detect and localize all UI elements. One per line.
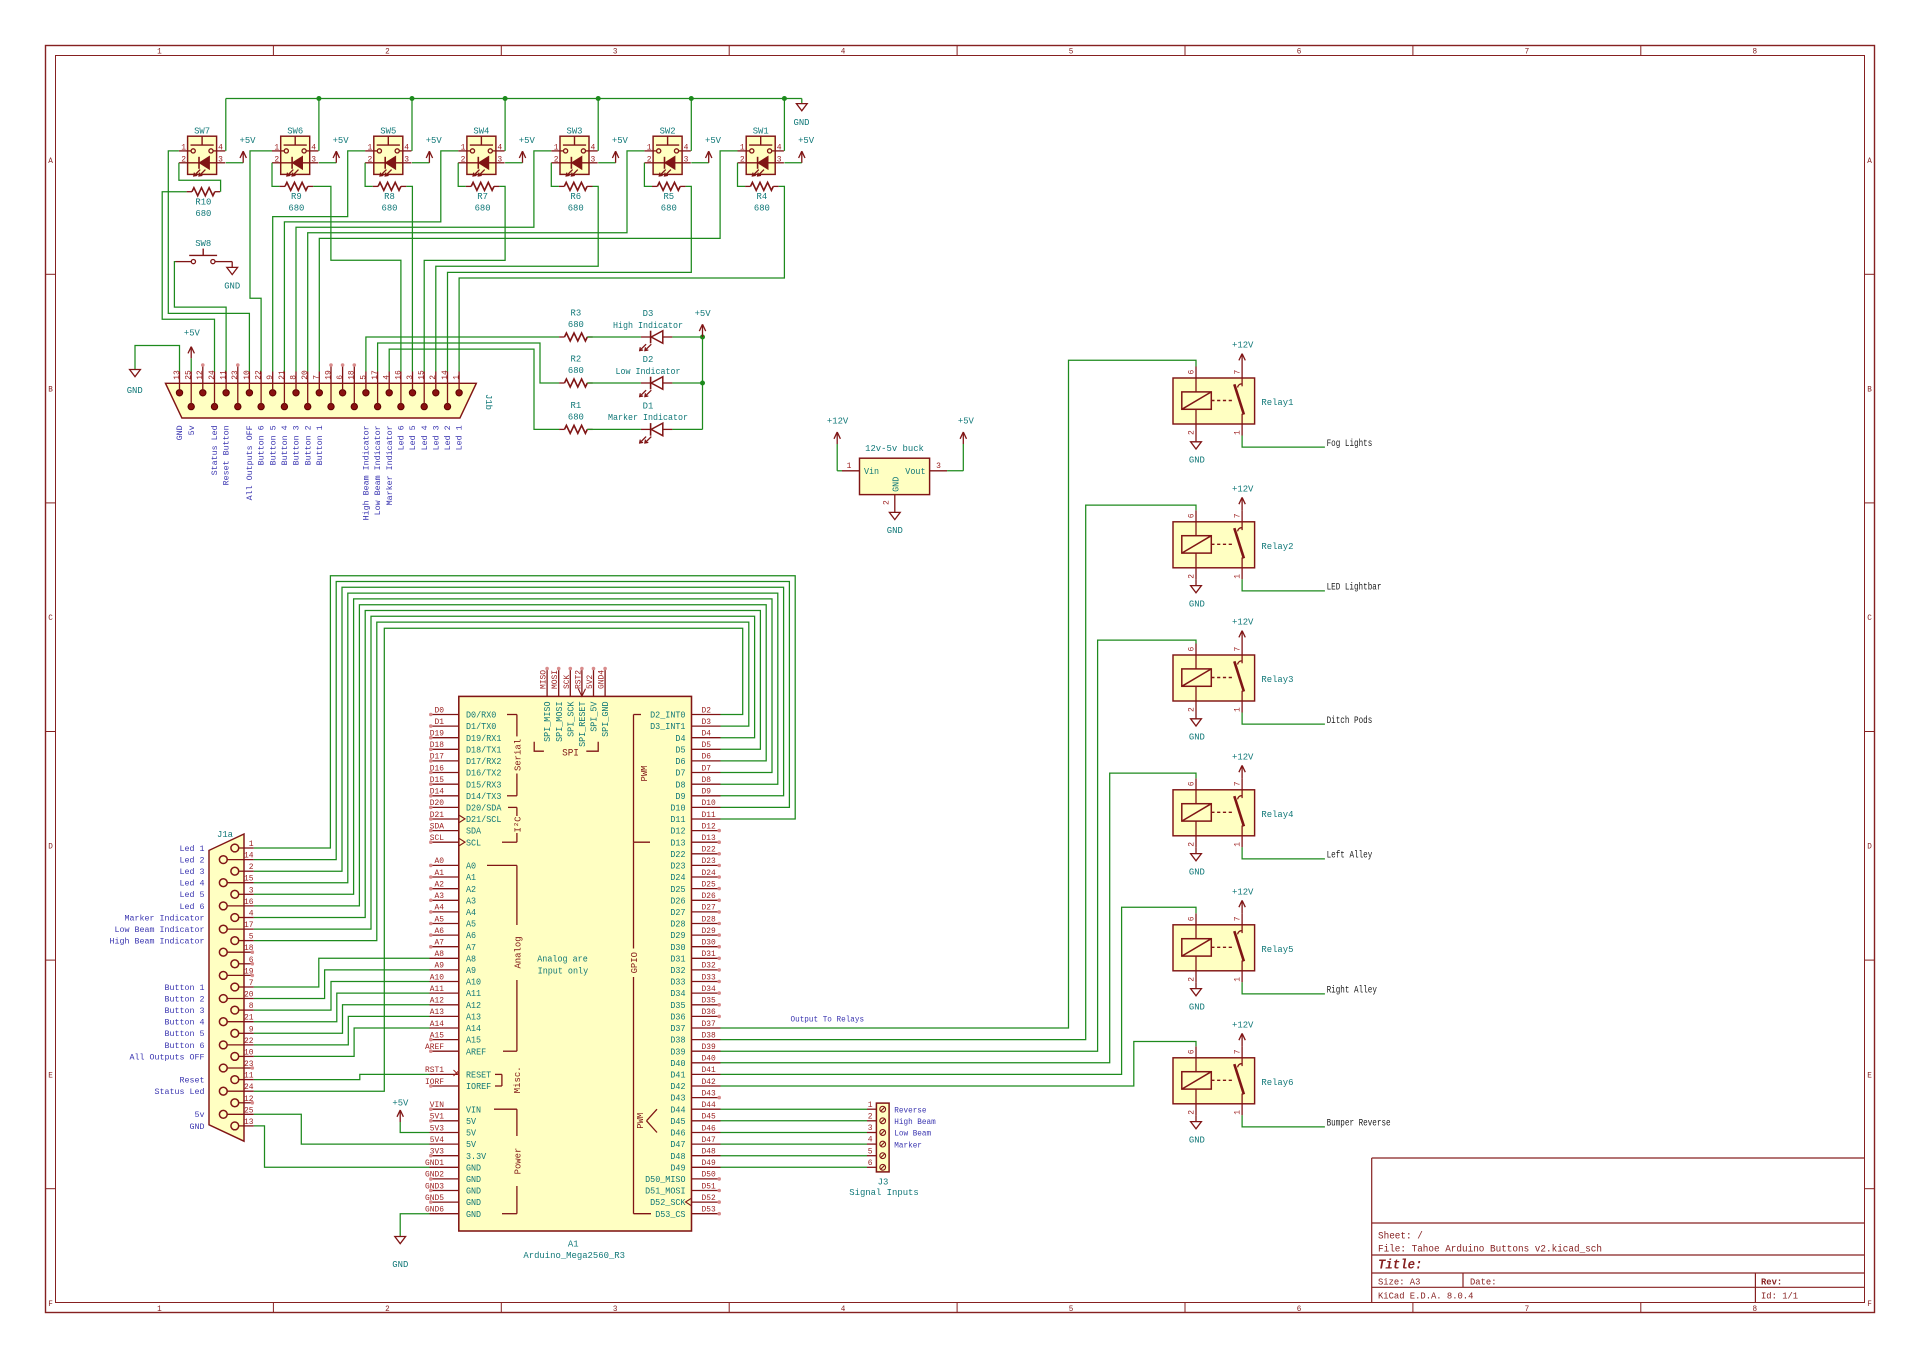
svg-text:1: 1 (453, 375, 462, 380)
svg-text:D15/RX3: D15/RX3 (466, 780, 501, 790)
svg-text:A8: A8 (435, 950, 445, 959)
wire Low Indicator: J1b pin17 to R2/D2 (378, 343, 703, 383)
svg-text:4: 4 (383, 375, 392, 380)
+5V power symbol at SW6 (319, 135, 349, 163)
svg-text:22: 22 (244, 1037, 254, 1046)
svg-text:E: E (1867, 1070, 1872, 1080)
svg-text:D11: D11 (670, 815, 685, 825)
svg-text:Led 6: Led 6 (180, 902, 205, 912)
svg-text:+5V: +5V (695, 308, 711, 319)
wire High Indicator: J1b pin5 to R3/D3 (366, 337, 703, 372)
svg-text:D11: D11 (702, 811, 716, 820)
net label Reverse at J3 (894, 1105, 926, 1115)
net label GND at J1a pin 13 (190, 1122, 205, 1132)
GND symbol at Relay6 (1189, 1115, 1205, 1145)
svg-text:SW6: SW6 (287, 126, 303, 137)
connector J1a (209, 829, 254, 1141)
wire Led 5: R8 to J1b pin 3 (406, 186, 412, 371)
svg-text:2: 2 (249, 863, 254, 872)
svg-text:+12V: +12V (1232, 752, 1254, 763)
+12V power symbol at Relay4 (1232, 752, 1254, 779)
svg-text:A9: A9 (466, 966, 476, 976)
svg-text:D47: D47 (702, 1136, 716, 1145)
svg-text:GND: GND (887, 525, 903, 536)
svg-text:680: 680 (754, 203, 770, 214)
svg-text:680: 680 (568, 365, 584, 376)
wire Led 1: J1a pin 1 to Arduino (254, 576, 795, 848)
switch SW4 (458, 126, 504, 176)
resistor R3 (559, 308, 593, 341)
svg-text:1: 1 (368, 142, 373, 152)
net label Led 2 at J1b pin 14 (443, 425, 453, 450)
svg-text:GND: GND (466, 1175, 481, 1185)
svg-text:14: 14 (244, 852, 254, 861)
net label Button 6 at J1a pin 22 (165, 1041, 205, 1051)
svg-text:15: 15 (418, 370, 427, 380)
switch SW3 (551, 126, 597, 176)
+5V power symbol at J1b pin 25 (184, 328, 200, 372)
svg-text:8: 8 (289, 375, 298, 380)
svg-text:6: 6 (1188, 647, 1197, 652)
svg-text:D21/SCL: D21/SCL (466, 815, 501, 825)
svg-text:2: 2 (1188, 430, 1197, 435)
wire D42 to Relay6 coil (721, 1042, 1197, 1087)
svg-text:D28: D28 (702, 915, 716, 924)
svg-text:Led 3: Led 3 (431, 425, 441, 450)
svg-text:D23: D23 (670, 862, 685, 872)
svg-text:Button 5: Button 5 (165, 1029, 205, 1039)
svg-text:6: 6 (1188, 370, 1197, 375)
net label Led 2 at J1a pin 14 (180, 856, 205, 866)
svg-text:Button 4: Button 4 (280, 425, 290, 465)
svg-text:A: A (48, 156, 53, 166)
+5V power symbol at SW1 (784, 135, 814, 163)
svg-text:GND: GND (466, 1210, 481, 1220)
svg-text:680: 680 (568, 203, 584, 214)
net label Ditch Pods (1327, 715, 1373, 727)
svg-text:GND: GND (1189, 599, 1205, 610)
svg-text:2: 2 (1188, 707, 1197, 712)
svg-text:5v: 5v (195, 1110, 205, 1120)
svg-text:PWM: PWM (635, 1113, 646, 1129)
svg-text:A11: A11 (466, 989, 481, 999)
net label Output To Relays (791, 1015, 865, 1025)
svg-text:A2: A2 (466, 885, 476, 895)
svg-text:3: 3 (218, 154, 223, 164)
svg-text:10: 10 (244, 1048, 254, 1057)
svg-text:D4: D4 (702, 730, 712, 739)
net label Button 1 at J1b pin 7 (315, 425, 325, 465)
net label Left Alley (1327, 850, 1373, 862)
svg-text:6: 6 (1188, 916, 1197, 921)
wire Reset Button: SW8 to J1b pin 11 (174, 262, 226, 372)
+12V power symbol at Relay6 (1232, 1020, 1254, 1047)
resistor R4 (745, 182, 779, 213)
net label Led 3 at J1b pin 2 (431, 425, 441, 450)
wire Button 3: J1a pin 8 to Arduino (254, 982, 430, 1011)
svg-text:D5: D5 (675, 745, 685, 755)
wire Fog Lights output from Relay1 pin 1 (1242, 436, 1325, 448)
svg-text:2: 2 (429, 375, 438, 380)
svg-text:+12V: +12V (1232, 887, 1254, 898)
svg-text:2: 2 (461, 154, 466, 164)
svg-text:6: 6 (1297, 1304, 1302, 1314)
svg-text:2: 2 (883, 500, 892, 505)
wire High Beam Indicator: J1a pin 5 to Arduino (254, 622, 749, 941)
+5V power symbol at Arduino 5V3 (392, 1098, 429, 1133)
svg-text:1: 1 (1234, 842, 1243, 847)
resistor R2 (559, 354, 593, 387)
+5V power symbol at SW4 (505, 135, 535, 163)
svg-text:D46: D46 (670, 1129, 685, 1139)
net label Status Led at J1b pin 24 (210, 425, 220, 475)
svg-text:Button 6: Button 6 (165, 1041, 205, 1051)
svg-text:Led 3: Led 3 (180, 867, 205, 877)
resistor R9 (280, 182, 314, 213)
svg-text:22: 22 (255, 370, 264, 380)
svg-text:20: 20 (301, 370, 310, 380)
svg-text:10: 10 (243, 370, 252, 380)
svg-text:2: 2 (274, 154, 279, 164)
svg-text:GND: GND (1189, 1002, 1205, 1013)
svg-text:A1: A1 (435, 869, 445, 878)
svg-text:5V: 5V (466, 1129, 477, 1139)
svg-text:D27: D27 (670, 908, 685, 918)
svg-text:A12: A12 (430, 997, 444, 1006)
svg-text:High Beam: High Beam (894, 1117, 935, 1127)
GND symbol at Relay1 (1189, 436, 1205, 466)
net label Marker Indicator at J1b pin 4 (385, 425, 395, 505)
svg-text:D42: D42 (702, 1078, 716, 1087)
svg-text:D44: D44 (702, 1101, 716, 1110)
svg-text:16: 16 (244, 898, 254, 907)
svg-text:Ditch Pods: Ditch Pods (1327, 715, 1373, 727)
svg-text:KiCad E.D.A. 8.0.4: KiCad E.D.A. 8.0.4 (1378, 1290, 1474, 1301)
svg-text:C: C (1867, 613, 1872, 623)
svg-text:D36: D36 (702, 1008, 716, 1017)
wire SW5 pin2 to R8 (365, 163, 373, 187)
svg-text:19: 19 (324, 370, 333, 380)
LED D3 High Indicator (613, 308, 683, 351)
GND symbol at Relay2 (1189, 579, 1205, 609)
wire SW7 pin2 to R10 right lead (179, 163, 221, 192)
svg-text:Date:: Date: (1470, 1276, 1497, 1287)
svg-text:A8: A8 (466, 954, 476, 964)
svg-text:+5V: +5V (612, 135, 628, 146)
svg-text:D39: D39 (702, 1043, 716, 1052)
svg-text:GND: GND (190, 1122, 205, 1132)
svg-text:8: 8 (1753, 1304, 1758, 1314)
svg-text:Signal Inputs: Signal Inputs (849, 1187, 919, 1198)
svg-text:A1: A1 (568, 1238, 579, 1249)
svg-text:25: 25 (185, 370, 194, 380)
svg-text:A4: A4 (435, 904, 445, 913)
net label Button 2 at J1b pin 20 (303, 425, 313, 465)
wire SW1 pin4 to +5V bus (782, 96, 787, 151)
svg-text:D2_INT0: D2_INT0 (650, 711, 685, 721)
svg-text:Button 6: Button 6 (257, 425, 267, 465)
svg-text:6: 6 (1297, 47, 1302, 57)
+5V power symbol at buck Vout (947, 416, 974, 471)
svg-text:B: B (1867, 385, 1872, 395)
+5V power symbol at SW2 (691, 135, 721, 163)
svg-text:D36: D36 (670, 1013, 685, 1023)
svg-text:D41: D41 (670, 1071, 685, 1081)
svg-text:IORF: IORF (425, 1078, 444, 1087)
net label Led 5 at J1a pin 3 (180, 890, 205, 900)
svg-text:SW4: SW4 (473, 126, 489, 137)
svg-text:R10: R10 (195, 197, 211, 208)
svg-text:680: 680 (382, 203, 398, 214)
svg-text:GND4: GND4 (598, 670, 607, 689)
svg-text:R9: R9 (291, 191, 302, 202)
svg-text:GND2: GND2 (425, 1171, 444, 1180)
svg-text:D52_SCK: D52_SCK (650, 1198, 686, 1208)
svg-text:1: 1 (554, 142, 559, 152)
svg-text:R3: R3 (571, 308, 582, 319)
svg-text:GND3: GND3 (425, 1182, 444, 1191)
svg-text:D12: D12 (702, 822, 716, 831)
net label High Beam at J3 (894, 1117, 935, 1127)
svg-text:D51_MOSI: D51_MOSI (645, 1187, 685, 1197)
svg-text:+5V: +5V (184, 328, 200, 339)
svg-text:D18/TX1: D18/TX1 (466, 745, 501, 755)
svg-text:D: D (48, 842, 53, 852)
net label Led 3 at J1a pin 2 (180, 867, 205, 877)
wire Led 6: R9 to J1b pin 16 (313, 186, 401, 371)
svg-text:2: 2 (1188, 574, 1197, 579)
svg-text:+5V: +5V (426, 135, 442, 146)
svg-text:D3_INT1: D3_INT1 (650, 722, 685, 732)
connector J1b (166, 363, 495, 418)
svg-text:4: 4 (497, 142, 502, 152)
svg-text:D26: D26 (702, 892, 716, 901)
wire SW4 pin4 to +5V bus (503, 96, 508, 151)
svg-text:D42: D42 (670, 1082, 685, 1092)
svg-text:7: 7 (1234, 370, 1243, 375)
svg-text:SPI_SCK: SPI_SCK (566, 701, 576, 737)
wire GND: J1a pin 13 to Arduino GND1 (254, 1126, 430, 1167)
svg-text:4: 4 (591, 142, 596, 152)
svg-text:Serial: Serial (512, 739, 523, 771)
relay Relay2 (1173, 510, 1294, 579)
svg-text:1: 1 (647, 142, 652, 152)
svg-text:MOSI: MOSI (551, 670, 560, 689)
svg-text:Marker Indicator: Marker Indicator (385, 425, 395, 505)
wire SW2 pin2 to R5 (644, 163, 652, 187)
wire Led 5: J1a pin 3 to Arduino (254, 599, 772, 894)
svg-text:24: 24 (208, 370, 217, 380)
svg-text:11: 11 (244, 1072, 254, 1081)
svg-text:+12V: +12V (1232, 484, 1254, 495)
wire SW6 pin2 to R9 (272, 163, 280, 187)
svg-text:17: 17 (244, 921, 254, 930)
net label Led 5 at J1b pin 3 (408, 425, 418, 450)
svg-text:F: F (48, 1299, 53, 1309)
svg-text:17: 17 (371, 370, 380, 380)
svg-text:A1: A1 (466, 873, 476, 883)
svg-text:D39: D39 (670, 1047, 685, 1057)
svg-text:7: 7 (1525, 47, 1530, 57)
wire All Outputs OFF: SW7 pin1 to J1b pin 10 (168, 151, 249, 372)
wire SW1 pin2 to R4 (738, 163, 746, 187)
title block (1372, 1158, 1865, 1303)
svg-text:D22: D22 (702, 846, 716, 855)
wire All Outputs OFF: J1a pin 10 to Arduino (254, 1028, 430, 1056)
svg-text:680: 680 (288, 203, 304, 214)
svg-text:GND: GND (466, 1163, 481, 1173)
buck converter module 12v-5v buck (842, 443, 947, 512)
svg-text:IOREF: IOREF (466, 1082, 491, 1092)
svg-text:R1: R1 (571, 400, 582, 411)
svg-text:2: 2 (1188, 842, 1197, 847)
svg-text:D: D (1867, 842, 1872, 852)
resistor R6 (559, 182, 593, 213)
svg-text:A10: A10 (430, 973, 444, 982)
net label Led 4 at J1a pin 15 (180, 879, 205, 889)
svg-text:D1/TX0: D1/TX0 (466, 722, 496, 732)
svg-text:25: 25 (244, 1106, 254, 1115)
wire D49 to J3 pin 6 (721, 1166, 868, 1168)
svg-text:Button 3: Button 3 (165, 1006, 205, 1016)
svg-text:D51: D51 (702, 1182, 716, 1191)
svg-text:D23: D23 (702, 857, 716, 866)
resistor R5 (652, 182, 686, 213)
svg-text:+5V: +5V (798, 135, 814, 146)
svg-text:D32: D32 (702, 962, 716, 971)
svg-text:D2: D2 (702, 706, 712, 715)
svg-text:D47: D47 (670, 1140, 685, 1150)
wire Led 2: J1a pin 14 to Arduino (254, 582, 790, 860)
svg-text:D25: D25 (670, 885, 685, 895)
svg-text:RST2: RST2 (574, 670, 583, 689)
svg-text:5: 5 (1069, 47, 1074, 57)
svg-text:GPIO: GPIO (629, 952, 640, 974)
svg-text:Reverse: Reverse (894, 1105, 926, 1115)
svg-text:D9: D9 (675, 792, 685, 802)
svg-text:6: 6 (336, 375, 345, 380)
svg-text:A5: A5 (466, 920, 476, 930)
wire D47 to J3 pin 4 (721, 1143, 868, 1145)
svg-text:SCK: SCK (563, 675, 572, 689)
GND symbol at J1b pin 13 (127, 346, 180, 396)
svg-text:D7: D7 (675, 769, 685, 779)
wire D37 to Relay1 coil (721, 360, 1197, 1028)
svg-text:+12V: +12V (1232, 340, 1254, 351)
svg-text:A7: A7 (435, 939, 445, 948)
wire Led 2: R5 to J1b (448, 186, 692, 371)
wire D44 to J3 pin 1 (721, 1108, 868, 1110)
svg-text:13: 13 (244, 1118, 254, 1127)
GND symbol at top right of switch bus (794, 99, 810, 129)
svg-text:1: 1 (868, 1101, 873, 1110)
Arduino Mega2560 A1 (425, 667, 721, 1261)
wire D39 to Relay3 coil (721, 640, 1197, 1051)
svg-text:D25: D25 (702, 880, 716, 889)
svg-text:A6: A6 (435, 927, 445, 936)
svg-text:2: 2 (647, 154, 652, 164)
resistor R7 (466, 182, 500, 213)
wire Low Beam Indicator: J1a pin 17 to Arduino (254, 616, 755, 929)
svg-text:Vin: Vin (864, 467, 879, 477)
net label Button 5 at J1a pin 9 (165, 1029, 205, 1039)
svg-text:GND: GND (892, 477, 902, 492)
svg-text:D2: D2 (643, 354, 654, 365)
svg-text:D50: D50 (702, 1171, 716, 1180)
svg-text:Button 5: Button 5 (268, 425, 278, 465)
svg-text:D49: D49 (670, 1163, 685, 1173)
svg-text:SW8: SW8 (195, 238, 211, 249)
svg-text:4: 4 (404, 142, 409, 152)
svg-text:J3: J3 (878, 1176, 889, 1187)
svg-text:D3: D3 (702, 718, 712, 727)
net label Button 3 at J1a pin 8 (165, 1006, 205, 1016)
wire SW7 pin4 to +5V bus (225, 99, 227, 151)
svg-text:A10: A10 (466, 978, 481, 988)
svg-text:A5: A5 (435, 915, 445, 924)
svg-text:1: 1 (1234, 977, 1243, 982)
svg-text:GND5: GND5 (425, 1194, 444, 1203)
resistor R1 (559, 400, 593, 433)
svg-text:MISO: MISO (540, 670, 549, 689)
svg-text:23: 23 (231, 370, 240, 380)
svg-text:7: 7 (1525, 1304, 1530, 1314)
svg-text:680: 680 (661, 203, 677, 214)
svg-text:LED Lightbar: LED Lightbar (1327, 582, 1382, 594)
svg-text:Status Led: Status Led (210, 425, 220, 475)
svg-text:+5V: +5V (958, 416, 974, 427)
svg-text:SPI_MISO: SPI_MISO (543, 702, 553, 742)
svg-text:5: 5 (359, 375, 368, 380)
svg-text:D22: D22 (670, 850, 685, 860)
svg-text:A14: A14 (466, 1024, 481, 1034)
net label Button 4 at J1a pin 21 (165, 1018, 205, 1028)
svg-text:D45: D45 (670, 1117, 685, 1127)
svg-text:20: 20 (244, 991, 254, 1000)
GND symbol at Arduino GND6 (392, 1214, 429, 1271)
svg-text:Arduino_Mega2560_R3: Arduino_Mega2560_R3 (523, 1250, 625, 1261)
net label Marker at J3 (894, 1140, 922, 1150)
svg-text:Low Beam Indicator: Low Beam Indicator (115, 925, 205, 935)
svg-text:Led 2: Led 2 (443, 425, 453, 450)
svg-text:Marker Indicator: Marker Indicator (608, 412, 688, 423)
svg-text:GND: GND (1189, 732, 1205, 743)
svg-text:Button 3: Button 3 (292, 425, 302, 465)
net label Marker Indicator at J1a pin 4 (125, 913, 205, 923)
svg-text:13: 13 (173, 370, 182, 380)
svg-text:A: A (1867, 156, 1872, 166)
svg-text:6: 6 (1188, 781, 1197, 786)
svg-text:9: 9 (249, 1025, 254, 1034)
svg-text:GND: GND (1189, 455, 1205, 466)
net label Reset at J1a pin 11 (180, 1076, 205, 1086)
svg-text:Led 4: Led 4 (180, 879, 205, 889)
switch SW8 (176, 238, 230, 264)
svg-text:D6: D6 (702, 753, 712, 762)
svg-text:1: 1 (461, 142, 466, 152)
net label High Beam Indicator at J1a pin 5 (110, 937, 205, 947)
svg-text:I²C: I²C (512, 816, 523, 832)
svg-text:D26: D26 (670, 896, 685, 906)
net label Led 4 at J1b pin 15 (420, 425, 430, 450)
svg-text:+5V: +5V (392, 1098, 408, 1109)
svg-text:3: 3 (249, 886, 254, 895)
svg-text:1: 1 (1234, 1110, 1243, 1115)
svg-text:16: 16 (394, 370, 403, 380)
svg-text:5: 5 (1069, 1304, 1074, 1314)
svg-text:5V4: 5V4 (430, 1136, 444, 1145)
net label Bumper Reverse (1327, 1119, 1391, 1130)
